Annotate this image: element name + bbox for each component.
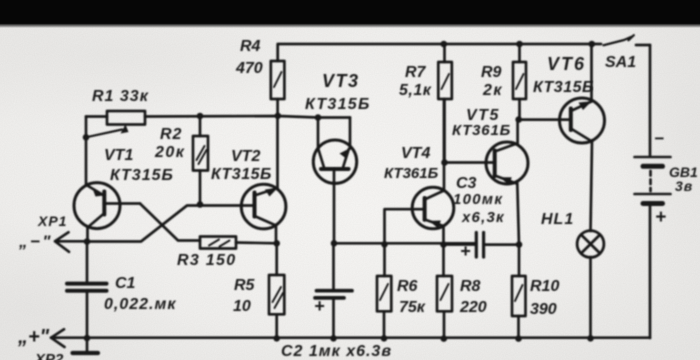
resistor R8 leads: [442, 245, 445, 340]
transistor VT5 collector lead: [495, 144, 517, 152]
resistor R7 body: [438, 62, 452, 99]
resistor R5 leads: [275, 243, 278, 338]
battery GB1 cell2 long plate: [635, 193, 671, 196]
resistor R6 leads: [383, 244, 386, 338]
wire: VT5 emitter drop: [517, 184, 519, 245]
wire: R3 to VT2 emitter node: [236, 241, 277, 245]
transistor VT2 base bar: [253, 193, 257, 217]
transistor VT3 emitter slant (arrow up-right): [343, 149, 349, 168]
transistor VT1 circle: [74, 183, 120, 229]
wire: base bias line (node of R1 right / R2 / R4 / VT2 collector): [86, 116, 350, 118]
connector XP2 terminal stub: [86, 338, 89, 352]
capacitor C3 left lead: [444, 243, 475, 246]
transistor VT3 collector-emitter bracket: [318, 118, 350, 149]
wire: emitter node line (VT3 base / R6 / VT4 / C3 / VT5 emitter): [334, 242, 475, 245]
resistor R1 body: [107, 111, 145, 125]
wire: cross-coupling VT1 emitter node to VT2 base: [87, 206, 255, 242]
resistor R8 body: [437, 276, 452, 311]
transistor VT3 base bar: [321, 167, 349, 171]
resistor R9 body: [513, 62, 526, 99]
resistor R4 leads: [276, 99, 279, 116]
wire: VT6 collector riser to rail: [590, 44, 593, 102]
transistor VT1 emitter lead: [88, 214, 105, 242]
transistor VT4 base bar: [423, 198, 427, 220]
transistor VT6 collector lead (arrow up-right): [571, 102, 592, 112]
wire: VT4 emitter drop: [442, 226, 445, 245]
resistor R7 leads: [443, 44, 446, 62]
capacitor C2 plates: [315, 291, 352, 298]
wire: VT6 base line: [519, 118, 571, 121]
wire: VT5 base line from R7/VT4 node: [445, 161, 495, 164]
transistor VT5 base bar: [493, 151, 497, 177]
wire: top supply rail: [278, 44, 601, 61]
wire: bottom common rail: [51, 336, 650, 339]
wire: battery top lead: [649, 45, 652, 155]
capacitor C1 top lead: [86, 242, 89, 282]
resistor R9 leads: [518, 44, 521, 120]
transistor VT1 collector lead (top, arrow into bar): [87, 185, 104, 195]
transistor VT6 emitter lead: [571, 129, 592, 142]
resistor R4 body: [271, 61, 285, 99]
resistor R1 wiper tap diagonal: [86, 130, 122, 138]
switch SA1 blade: [604, 35, 634, 45]
transistor VT6 base bar: [569, 109, 573, 131]
battery GB1 cell2 short plate: [643, 201, 663, 206]
transistor VT3 circle: [313, 140, 356, 183]
wire: VT4 base branch: [385, 209, 425, 244]
resistor R10 body: [512, 276, 526, 316]
capacitor C1 plates: [67, 284, 107, 291]
wire: VT5 collector riser to R9: [516, 120, 519, 144]
resistor R6 body: [377, 276, 391, 311]
capacitor C3 plates: [476, 233, 483, 258]
transistor VT1 base bar: [102, 192, 106, 215]
capacitor C2 top lead: [332, 243, 335, 289]
transistor VT5 circle: [486, 142, 528, 184]
transistor VT2 emitter lead: [255, 216, 277, 243]
wire: VT1 collector drop from R1: [85, 117, 88, 185]
wire: VT4 collector riser to R7: [443, 99, 446, 191]
connector XP2 arrow: [51, 329, 65, 347]
top letterbox bar: [0, 0, 700, 24]
wire: cross-coupling VT1 base to R3: [140, 204, 200, 241]
transistor VT4 collector lead: [425, 191, 444, 200]
transistor VT2 collector lead (arrow up-right): [255, 188, 278, 196]
transistor VT4 emitter lead (arrow toward bar): [425, 220, 444, 227]
capacitor C1 bottom lead: [86, 293, 89, 339]
wire: battery bottom lead: [649, 206, 652, 338]
transistor VT3 collector slant: [318, 149, 324, 168]
wire: R7 bottom to VT4 collector node: [443, 99, 446, 163]
connector XP1 arrow: [55, 232, 87, 252]
transistor VT5 emitter lead (arrow toward bar): [495, 176, 517, 184]
battery GB1 dashed link: [649, 171, 652, 191]
resistor R3 body: [200, 237, 236, 249]
capacitor C2 bottom lead: [332, 300, 335, 339]
resistor R2 body: [193, 136, 208, 171]
battery GB1 cell1 short plate: [643, 164, 663, 169]
resistor R5 body: [269, 275, 284, 314]
lamp HL1: [577, 231, 604, 258]
transistor VT2 circle: [241, 184, 286, 229]
wire: VT6 emitter to lamp: [591, 142, 593, 232]
transistor VT1 base lead: [104, 202, 140, 205]
transistor VT6 circle: [560, 98, 605, 143]
wire: VT2 collector riser: [276, 116, 279, 188]
battery GB1 cell1 long plate: [635, 156, 671, 159]
resistor R2 leads: [199, 116, 202, 205]
transistor VT3 base lead: [333, 169, 336, 243]
resistor R10 leads: [517, 245, 520, 339]
switch SA1 fixed contact stub: [636, 44, 650, 47]
transistor VT4 circle: [412, 187, 454, 229]
wire: lamp to rail: [589, 257, 592, 339]
capacitor C3 right lead: [485, 243, 519, 246]
